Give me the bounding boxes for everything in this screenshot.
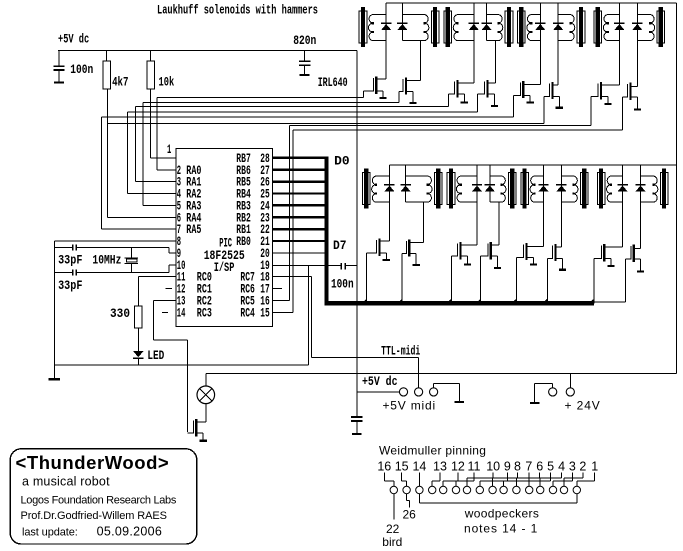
wire drain Q8 up to solenoid	[637, 15, 638, 87]
solenoid coil L3	[453, 15, 457, 41]
wire coil L15 leads	[611, 176, 623, 203]
flyback diode D4	[481, 23, 491, 31]
bus D0-D7 vertical	[325, 157, 329, 304]
wire +24V bottom rail	[206, 373, 677, 374]
wire coil L2 leads	[402, 14, 424, 41]
flyback diode D8	[632, 23, 642, 31]
solenoid coil L2	[425, 15, 429, 41]
no-connect dash pin 12	[166, 288, 172, 289]
solenoid core TOP3	[444, 7, 452, 47]
wire RC0 to 330 resistor	[138, 276, 176, 306]
MOSFET Q2	[399, 77, 421, 104]
svg-text:16: 16	[377, 460, 391, 474]
capacitor C1 33pF	[54, 244, 176, 253]
MOSFET Q1	[364, 76, 387, 99]
solenoid core BOT15	[597, 169, 605, 209]
terminal circle 11	[452, 486, 459, 493]
wire terminal 6 lead	[516, 472, 540, 486]
wire gate riser Q14 from D bus	[547, 259, 548, 304]
flyback diode D12	[485, 184, 495, 192]
wire terminal 3 lead	[553, 472, 573, 486]
wire coil L5 leads	[531, 14, 540, 41]
svg-text:15: 15	[260, 306, 270, 320]
svg-text:D0: D0	[334, 155, 350, 169]
solenoid coil L14	[574, 176, 578, 202]
solenoid coil L11	[456, 176, 460, 202]
wire drain Q16 up to solenoid	[640, 176, 641, 249]
svg-text:RA5: RA5	[186, 223, 201, 237]
wire PIC pin 15 to gate line 8	[273, 129, 623, 312]
wire terminal 16 to bird label	[393, 494, 394, 520]
solenoid coil L8	[650, 15, 654, 41]
MOSFET Q10	[402, 239, 423, 266]
solenoid core BOT13	[521, 169, 529, 209]
terminal circle 3	[549, 486, 556, 493]
terminal circle 4	[537, 486, 544, 493]
solenoid coil L13	[530, 176, 534, 202]
svg-text:+ 24V: + 24V	[565, 399, 601, 413]
wire coil L10 leads	[406, 176, 428, 203]
svg-text:4: 4	[558, 460, 565, 474]
wire PIC pin 5 to top gate line 2	[142, 102, 176, 205]
wire terminal 12 lead	[443, 472, 459, 486]
svg-text:05.09.2006: 05.09.2006	[97, 525, 163, 539]
svg-text:last update:: last update:	[22, 526, 78, 538]
wire pin 20	[273, 252, 325, 253]
wire gate riser Q10 from D bus	[402, 254, 403, 304]
wire +5V to midi connector pin	[357, 391, 400, 392]
svg-text:+5V midi: +5V midi	[383, 399, 436, 413]
svg-text:14: 14	[177, 306, 186, 320]
svg-text:33pF: 33pF	[58, 279, 82, 293]
solenoid core BOT16	[660, 169, 668, 209]
wire coil L12 leads	[490, 176, 502, 203]
wire drain Q14 up to solenoid	[561, 176, 562, 247]
capacitor C2 33pF	[54, 264, 176, 275]
wire drain Q7 up to solenoid	[619, 15, 620, 86]
svg-text:1: 1	[167, 143, 171, 157]
svg-text:6: 6	[536, 460, 543, 474]
terminal circle 8	[489, 486, 496, 493]
connector pin +24V	[566, 388, 574, 396]
terminal circle 9	[476, 486, 483, 493]
connector pin midi ground	[430, 388, 438, 396]
svg-text:RC3: RC3	[197, 306, 212, 320]
svg-text:I/SP: I/SP	[214, 261, 235, 275]
solenoid core TOP2	[431, 7, 439, 47]
svg-text:Logos Foundation Research Labs: Logos Foundation Research Labs	[21, 495, 177, 507]
wire woodpeckers bracket	[419, 494, 577, 504]
wire terminal 2 lead	[564, 472, 584, 486]
svg-text:13: 13	[433, 460, 447, 474]
svg-text:4k7: 4k7	[112, 75, 128, 89]
wire rail to diode line 3	[473, 3, 474, 15]
wire terminal 14 lead	[419, 472, 420, 486]
wire +5V drop to midi connector	[356, 51, 357, 392]
wire PIC pin 2 to top gate line 1	[156, 97, 176, 170]
connector pin TTL-midi	[415, 388, 423, 396]
svg-text:RB0: RB0	[236, 235, 251, 249]
wire +24V bottom row rail	[389, 164, 676, 165]
wire rail to diode line 7	[619, 3, 620, 15]
resistor R3 330	[135, 306, 143, 328]
solenoid coil L10	[428, 176, 432, 202]
svg-text:10: 10	[486, 460, 500, 474]
wire drain Q10 up to solenoid	[423, 202, 424, 242]
wire gate riser Q5	[513, 95, 514, 116]
wire terminal 5 lead	[529, 472, 551, 486]
flyback diode D7	[614, 23, 624, 31]
wire gate riser Q2	[398, 92, 399, 103]
wire coil L3 leads	[458, 14, 474, 41]
bus D0-D7 stubs from RB pins	[273, 157, 327, 243]
flyback diode D1	[381, 23, 391, 31]
wire rail to diode line 12	[489, 165, 490, 176]
wire rail to diode line 6	[558, 3, 559, 15]
wire drain Q11 up to solenoid	[477, 176, 478, 245]
flyback diode D3	[469, 23, 479, 31]
capacitor midi +5V filter	[351, 392, 363, 435]
wire drain Q15 up to solenoid	[622, 176, 623, 247]
wire PIC pin 6 to top gate line 6	[107, 124, 176, 218]
wire MCLR pin1 to 10k	[150, 89, 176, 159]
svg-text:8: 8	[514, 460, 521, 474]
MOSFET Q9	[367, 238, 390, 261]
wire terminal 1 lead	[576, 472, 595, 486]
flyback diode D6	[553, 23, 563, 31]
wire terminal 9 lead	[479, 472, 508, 486]
flyback diode D2	[397, 23, 407, 31]
wire +24V to lamp	[205, 374, 206, 386]
solenoid core BOT12	[508, 169, 516, 209]
terminal circle 10	[463, 486, 470, 493]
svg-text:1: 1	[591, 460, 598, 474]
MOSFET Q16	[626, 245, 645, 273]
svg-text:5: 5	[547, 460, 554, 474]
svg-text:26: 26	[403, 508, 417, 522]
svg-text:TTL-midi: TTL-midi	[381, 344, 420, 358]
wire gate riser Q1	[363, 91, 364, 97]
bus D0-D7 horizontal to bottom row	[325, 301, 595, 306]
wire terminal 15 lead	[401, 472, 407, 486]
solenoid core TOP7	[594, 7, 602, 47]
svg-text:+5V dc: +5V dc	[58, 33, 89, 47]
solenoid core BOT11	[447, 169, 455, 209]
MOSFET Q3	[448, 80, 474, 104]
wire rail to diode line 1	[386, 3, 387, 15]
MOSFET Q11	[452, 242, 478, 266]
svg-text:LED: LED	[147, 349, 164, 363]
wire rail to diode line 16	[640, 165, 641, 176]
wire gate riser Q12 from D bus	[480, 256, 481, 303]
wire rail to diode line 15	[622, 165, 623, 176]
solenoid coil L16	[654, 176, 658, 202]
wire gate riser Q6	[544, 97, 545, 124]
ground symbol	[49, 365, 61, 380]
wire rail to diode line 2	[402, 3, 403, 15]
flyback diode D11	[472, 184, 482, 192]
wire midi ground pin to ground	[433, 383, 464, 403]
svg-text:Prof.Dr.Godfried-Willem RAES: Prof.Dr.Godfried-Willem RAES	[21, 510, 167, 522]
svg-text:10k: 10k	[159, 75, 175, 89]
solenoid core TOP6	[577, 7, 585, 47]
svg-text:100n: 100n	[331, 277, 354, 291]
solenoid coil L1	[368, 15, 372, 41]
terminal circle 14	[416, 486, 423, 493]
wire PIC pin 3 to top gate line 3	[135, 107, 176, 183]
wire ground rail	[54, 365, 308, 366]
MOSFET Q12	[481, 242, 502, 269]
wire gate riser Q9 from D bus	[366, 253, 367, 303]
wire rail to diode line 10	[405, 165, 406, 176]
MOSFET Q4	[478, 80, 499, 107]
solenoid coil L12	[502, 176, 506, 202]
wire gate riser Q8	[622, 97, 623, 130]
wire gate riser Q4	[477, 94, 478, 112]
wire rail to diode line 13	[543, 165, 544, 176]
wire drain Q6 up to solenoid	[558, 15, 559, 86]
wire pin 19 Vss	[273, 265, 341, 266]
wire right edge +24V	[676, 3, 677, 374]
solenoid coil L9	[372, 176, 376, 202]
wire coil L11 leads	[461, 176, 477, 203]
terminal circle 15	[403, 486, 410, 493]
wire gate riser Q11 from D bus	[451, 256, 452, 303]
svg-text:100n: 100n	[70, 63, 93, 77]
svg-text:bird: bird	[382, 535, 402, 549]
solenoid core TOP1	[359, 7, 367, 47]
wire coil L14 leads	[561, 176, 573, 203]
svg-text:33pF: 33pF	[58, 254, 82, 268]
svg-text:3: 3	[569, 460, 576, 474]
svg-text:woodpeckers: woodpeckers	[464, 507, 540, 521]
svg-text:+5V dc: +5V dc	[362, 375, 398, 389]
svg-text:a musical robot: a musical robot	[22, 475, 110, 489]
terminal circle 7	[500, 486, 507, 493]
terminal circle 1	[573, 486, 580, 493]
U1 internal labels	[204, 237, 245, 275]
solenoid core TOP4	[505, 7, 513, 47]
U1 right pin labels	[236, 152, 270, 320]
terminal circle 12	[440, 486, 447, 493]
terminal circle 5	[526, 486, 533, 493]
wire rail to diode line 14	[561, 165, 562, 176]
flyback diode D14	[556, 184, 566, 192]
wire RC7 TTL-midi	[273, 276, 419, 388]
terminal circle 2	[560, 486, 567, 493]
svg-text:RC4: RC4	[240, 306, 255, 320]
MOSFET Q13	[517, 243, 544, 266]
connector pin +5V midi	[399, 388, 407, 396]
flyback diode D15	[617, 184, 627, 192]
wire coil L4 leads	[487, 14, 499, 41]
solenoid coil L6	[570, 15, 574, 41]
wire rail to diode line 8	[637, 3, 638, 15]
wire +24V pin to rail	[570, 374, 571, 388]
wire terminal 16 lead	[384, 472, 395, 486]
wire coil L16 leads	[641, 176, 654, 203]
wire top gate lines horizontal	[101, 97, 544, 124]
wire terminal 4 lead	[540, 472, 562, 486]
LED D17	[133, 351, 144, 365]
wire 24V ground pin	[530, 383, 553, 404]
capacitor 820n	[299, 51, 310, 77]
wire rail to diode line 11	[477, 165, 478, 176]
labels terminal numbers 16..1	[377, 460, 598, 474]
wire terminal 11 lead	[456, 472, 475, 486]
wire drain Q1 up to solenoid	[386, 15, 387, 80]
MOSFET Q8	[622, 83, 641, 111]
solenoid core TOP8	[657, 7, 665, 47]
terminal circle 6	[513, 486, 520, 493]
wire coil L8 leads	[637, 14, 650, 41]
crystal X1 10MHz	[125, 247, 139, 272]
wire rail to diode line 5	[540, 3, 541, 15]
wire coil L9 leads	[376, 176, 389, 203]
solenoid coil L5	[527, 15, 531, 41]
wire drain Q12 up to solenoid	[498, 202, 499, 245]
MOSFET Q6	[544, 82, 563, 109]
wire drain Q4 up to solenoid	[495, 41, 496, 83]
wire PIC pin 7 to top gate line 5	[101, 117, 176, 230]
svg-text:2: 2	[579, 460, 586, 474]
svg-text:D7: D7	[333, 239, 347, 253]
wire terminal 7 lead	[503, 472, 529, 486]
flyback diode D16	[635, 184, 645, 192]
MOSFET Q15	[594, 244, 623, 267]
terminal circle 16	[390, 486, 397, 493]
svg-text:10MHz: 10MHz	[92, 254, 121, 268]
solenoid core TOP5	[518, 7, 526, 47]
svg-text:Weidmuller pinning: Weidmuller pinning	[379, 444, 486, 458]
no-connect dash pin 17	[273, 288, 282, 289]
capacitor 100n decoupling	[340, 263, 357, 270]
svg-text:11: 11	[468, 460, 481, 474]
wire terminal 13 lead	[432, 472, 441, 486]
wire coil L6 leads	[558, 14, 570, 41]
wire drain Q3 up to solenoid	[473, 15, 474, 84]
no-connect dash pin 14	[162, 312, 168, 313]
terminal circle 13	[429, 486, 436, 493]
flyback diode D13	[538, 184, 548, 192]
wire PIC pin 16 to gate line 7	[273, 125, 591, 301]
wire gate riser Q13 from D bus	[516, 257, 517, 303]
svg-text:12: 12	[451, 460, 465, 474]
wire terminal 10 lead	[467, 472, 494, 486]
svg-text:22: 22	[386, 522, 400, 536]
svg-text:Laukhuff solenoids with hammer: Laukhuff solenoids with hammers	[157, 4, 318, 18]
solenoid coil L7	[603, 15, 607, 41]
wire lamp to MOSFET drain	[205, 404, 206, 422]
wire pin 8 Vss to ground	[54, 241, 176, 366]
resistor R2 10k	[147, 51, 155, 89]
wire drain Q2 up to solenoid	[420, 41, 421, 81]
flyback diode D10	[400, 184, 410, 192]
solenoid core BOT9	[362, 169, 370, 209]
wire rail to diode line 4	[486, 3, 487, 15]
wire drain Q13 up to solenoid	[543, 176, 544, 246]
wire coil L7 leads	[608, 14, 620, 41]
flyback diode D9	[384, 184, 394, 192]
U1 left pin labels	[167, 143, 212, 320]
wire gate riser Q7	[590, 97, 591, 126]
title box	[10, 449, 197, 544]
svg-text:7: 7	[525, 460, 532, 474]
wire +24V top rail	[386, 3, 676, 4]
wire gate riser Q15 from D bus	[594, 259, 595, 304]
PIC 18F2525 U1 body	[176, 149, 273, 327]
wire terminal 8 lead	[492, 472, 518, 486]
svg-text:820n: 820n	[293, 34, 316, 48]
wire gate riser Q3	[448, 94, 449, 106]
MOSFET Q7	[591, 82, 620, 105]
wire drain Q5 up to solenoid	[540, 15, 541, 85]
resistor R1 4k7	[103, 51, 111, 89]
svg-text:9: 9	[504, 460, 511, 474]
MOSFET Q14	[547, 244, 566, 271]
solenoid coil L15	[607, 176, 611, 202]
connector pin 24V ground	[549, 388, 557, 396]
wire resistor to LED	[138, 328, 139, 351]
capacitor 100n top-left	[53, 51, 64, 84]
svg-text:330: 330	[110, 307, 130, 321]
solenoid coil L4	[498, 15, 502, 41]
solenoid core BOT10	[435, 169, 443, 209]
lamp B1	[197, 386, 215, 404]
wire gate riser Q16 from D bus	[594, 302, 626, 303]
solenoid core BOT14	[580, 169, 588, 209]
wire +5V rail	[58, 50, 357, 51]
wire coil L1 leads	[373, 14, 386, 41]
wire pin 19 branch to ground rail	[308, 265, 309, 365]
MOSFET Q5	[513, 81, 540, 104]
wire PIC pin 4 to top gate line 4	[127, 112, 176, 194]
svg-text:15: 15	[395, 460, 409, 474]
wire RC2 to lamp MOSFET gate	[153, 300, 188, 432]
svg-text:notes 14 - 1: notes 14 - 1	[464, 521, 538, 535]
wire drain Q9 up to solenoid	[389, 176, 390, 241]
wire terminal 15 to 26 label	[406, 494, 410, 508]
wire 4k7 to pin6	[107, 89, 108, 124]
wire coil L13 leads	[534, 176, 543, 203]
wire rail to diode line 9	[389, 165, 390, 176]
flyback diode D5	[535, 23, 545, 31]
svg-text:<ThunderWood>: <ThunderWood>	[16, 452, 170, 473]
svg-text:14: 14	[412, 460, 426, 474]
svg-text:IRL640: IRL640	[318, 76, 348, 90]
